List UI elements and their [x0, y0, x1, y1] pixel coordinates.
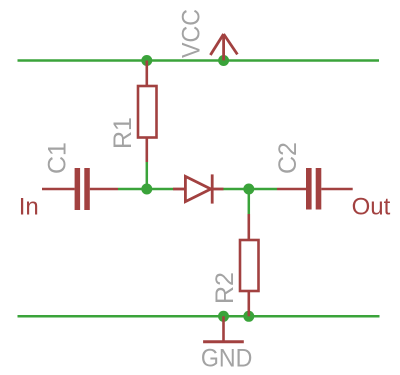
node junction top VCC: [218, 55, 229, 66]
node junction mid right: [243, 184, 254, 195]
wire VCC top rail: [18, 59, 380, 62]
wire C1 right pin: [90, 188, 118, 191]
wire GND bottom rail: [18, 315, 380, 318]
node junction bottom GND: [218, 311, 229, 322]
wire R1 bottom to mid wire: [146, 162, 149, 189]
diode D: [173, 174, 223, 203]
wire node to R2: [248, 189, 251, 214]
wire diode to C2: [223, 188, 277, 191]
resistor R1: [138, 61, 157, 163]
svg-text:Out: Out: [352, 194, 391, 221]
node junction top R1: [141, 55, 152, 66]
svg-text:C1: C1: [44, 142, 72, 174]
svg-text:VCC: VCC: [178, 9, 206, 58]
capacitor C2: [306, 168, 321, 210]
svg-text:In: In: [19, 194, 39, 221]
resistor R2: [240, 214, 259, 316]
svg-text:GND: GND: [201, 345, 253, 373]
svg-text:R2: R2: [211, 272, 239, 304]
svg-text:C2: C2: [274, 142, 302, 174]
supply VCC arrow symbol: [210, 34, 237, 60]
wire In pin: [42, 188, 75, 191]
wire C2 left pin: [277, 188, 306, 191]
ground GND symbol: [203, 316, 244, 342]
capacitor C1: [75, 168, 90, 210]
wire In to mid-left: [118, 188, 173, 191]
wire C2 right pin to Out: [321, 188, 352, 191]
node junction bottom R2: [243, 311, 254, 322]
node junction mid left: [141, 184, 152, 195]
svg-text:R1: R1: [109, 117, 137, 149]
